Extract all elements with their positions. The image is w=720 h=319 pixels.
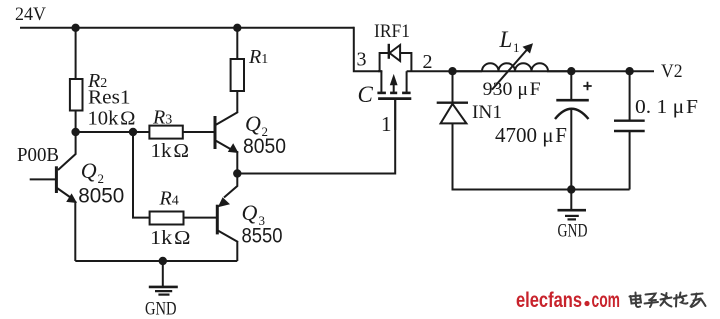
pin label 1 xyxy=(381,112,392,136)
wire base bus horizontal xyxy=(76,131,150,133)
label Q3 xyxy=(242,200,266,228)
capacitor 0.1uF plates xyxy=(614,121,645,131)
svg-text:P00B: P00B xyxy=(17,144,59,166)
capacitor 0.1uF bottom lead xyxy=(629,131,631,190)
value label 1kOhm R3 xyxy=(151,140,190,162)
transistor Q3: collector diagonal xyxy=(218,231,238,243)
svg-text:8050: 8050 xyxy=(243,135,286,158)
capacitor 0.1uF top lead xyxy=(629,71,631,120)
wire R1 bottom to Q2 collector xyxy=(236,91,238,113)
transistor Q2 right: collector diagonal xyxy=(216,112,239,125)
svg-text:R4: R4 xyxy=(159,188,179,210)
wire rail to R1 top xyxy=(236,28,238,59)
svg-text:10k Ω: 10k Ω xyxy=(88,108,136,130)
wire Q2 left emitter down to bottom rail xyxy=(74,201,76,261)
label IRF1 xyxy=(374,21,410,42)
resistor R2 body xyxy=(70,79,83,111)
svg-text:L: L xyxy=(499,27,513,52)
node junction dot bus/R2 xyxy=(71,128,79,136)
svg-text:1k Ω: 1k Ω xyxy=(151,140,190,162)
resistor R4 body xyxy=(150,212,184,225)
capacitor 4700uF curved plate xyxy=(555,109,589,119)
value label 930uF xyxy=(483,79,541,100)
svg-text:3: 3 xyxy=(357,49,367,71)
transistor Q3: emitter diagonal from node with arrow xyxy=(218,174,238,208)
resistor R3 body xyxy=(149,126,182,139)
wire Q2 emitter down to node xyxy=(236,151,238,174)
label Q2 right xyxy=(245,111,268,139)
diode IN1 lead from node xyxy=(452,71,454,102)
pin label 2 xyxy=(423,51,433,73)
wire IN1 anode down to bottom-right rail xyxy=(453,124,630,190)
mosfet IRF1 gate lead down xyxy=(394,100,396,130)
mosfet IRF1 body diode xyxy=(380,44,412,71)
label plus sign xyxy=(583,82,591,90)
svg-text:R3: R3 xyxy=(152,107,172,129)
diode IN1 cathode bar xyxy=(437,101,468,103)
wire rail corner down to MOSFET pin 3 xyxy=(354,27,382,71)
resistor R1 body xyxy=(231,59,244,91)
svg-text:8550: 8550 xyxy=(242,225,283,248)
svg-text:8050: 8050 xyxy=(78,185,124,208)
svg-text:GND: GND xyxy=(558,221,588,242)
label 8050 right xyxy=(243,135,286,158)
node junction dot diode IN1 xyxy=(448,67,456,75)
mosfet IRF1 source lead left xyxy=(378,71,382,92)
svg-text:930 μ F: 930 μ F xyxy=(483,79,541,100)
transistor Q2 left: emitter diagonal with arrow xyxy=(57,188,77,203)
svg-text:1: 1 xyxy=(381,112,392,136)
value label 4700uF xyxy=(495,123,567,147)
node junction dot bottom-right / GND xyxy=(567,185,575,193)
wire rail to R2 top xyxy=(75,28,77,79)
label 8550 xyxy=(242,225,283,248)
svg-text:C: C xyxy=(358,82,374,107)
label GND left xyxy=(145,299,177,319)
label P00B xyxy=(17,144,59,166)
svg-text:2: 2 xyxy=(423,51,433,73)
svg-text:Q: Q xyxy=(242,200,258,225)
svg-text:Res1: Res1 xyxy=(88,87,131,109)
diode IN1 triangle xyxy=(441,104,467,124)
wire R2 bottom to base bus xyxy=(75,111,77,133)
label IN1 xyxy=(472,102,502,123)
inductor L1 humps xyxy=(453,63,572,71)
transistor Q2 left: bar xyxy=(55,166,58,193)
node junction dot bus/R4 branch xyxy=(129,128,137,136)
wire bus down to R4 xyxy=(133,132,150,218)
mosfet IRF1 drain lead right xyxy=(406,71,408,92)
transistor Q2 left: collector from bus node xyxy=(58,132,76,170)
wire bottom-left ground rail xyxy=(75,260,237,262)
label C (gate) xyxy=(358,82,374,107)
pin label 3 xyxy=(357,49,367,71)
transistor Q2 left: base stub xyxy=(30,178,55,180)
transistor Q2 right: bar xyxy=(214,116,217,149)
node junction dot emitters xyxy=(233,169,241,177)
value label 1kOhm R4 xyxy=(150,227,191,249)
value label 10kOhm xyxy=(88,108,136,130)
label GND right xyxy=(558,221,588,242)
watermark chinese characters xyxy=(630,293,706,308)
inductor L1 adjust arrow xyxy=(492,43,533,89)
label L1 xyxy=(499,27,520,55)
label R4 xyxy=(159,188,179,210)
ground symbol left xyxy=(149,261,178,295)
capacitor 4700uF top plate xyxy=(556,99,589,102)
svg-text:1: 1 xyxy=(513,40,520,55)
wire Q3 collector down to bottom rail xyxy=(236,241,238,261)
node junction dot bottom rail / GND xyxy=(159,257,167,265)
label R1 xyxy=(248,46,268,68)
value label 0.1uF xyxy=(635,96,698,118)
svg-text:com: com xyxy=(592,289,621,312)
transistor Q3: bar xyxy=(216,205,219,235)
svg-text:Q: Q xyxy=(245,111,261,136)
ground symbol right xyxy=(558,190,587,220)
wire switch node (pin 2 to V2) xyxy=(407,70,654,72)
label R3 xyxy=(152,107,172,129)
capacitor 4700uF bottom lead xyxy=(570,109,572,190)
wire emitter node to MOSFET gate (pin 1) xyxy=(237,100,395,174)
node junction dot 4700uF xyxy=(567,67,575,75)
svg-text:24V: 24V xyxy=(15,4,46,25)
svg-text:V2: V2 xyxy=(661,61,683,82)
value label Res1 xyxy=(88,87,131,109)
svg-text:Q: Q xyxy=(81,158,97,183)
watermark logo elecfans.com xyxy=(516,289,620,312)
wire R3 to Q2 base xyxy=(183,131,215,133)
node junction dot rail/R2 xyxy=(71,24,79,32)
svg-text:GND: GND xyxy=(145,299,177,319)
wire top 24V rail xyxy=(20,27,354,29)
mosfet IRF1 channel bars xyxy=(377,92,410,95)
svg-text:R1: R1 xyxy=(248,46,268,68)
svg-text:IRF1: IRF1 xyxy=(374,21,410,42)
label 8050 left xyxy=(78,185,124,208)
mosfet IRF1 gate plate xyxy=(378,97,411,100)
label R2 xyxy=(87,70,107,92)
svg-text:0. 1 μ F: 0. 1 μ F xyxy=(635,96,698,118)
mosfet IRF1 substrate arrow xyxy=(390,74,398,92)
node 24V label xyxy=(15,4,46,25)
node junction dot 0.1uF xyxy=(625,67,633,75)
wire R4 to Q3 base xyxy=(184,217,218,219)
svg-text:IN1: IN1 xyxy=(472,102,502,123)
svg-text:elecfans: elecfans xyxy=(516,289,582,312)
capacitor 4700uF top lead xyxy=(570,71,572,100)
node junction dot rail/R1 xyxy=(233,24,241,32)
svg-text:4700 μ F: 4700 μ F xyxy=(495,123,567,147)
label V2 xyxy=(661,61,683,82)
transistor Q2 right: emitter diagonal with arrow xyxy=(216,141,239,154)
svg-text:1k Ω: 1k Ω xyxy=(150,227,191,249)
label Q2 left xyxy=(81,158,104,186)
